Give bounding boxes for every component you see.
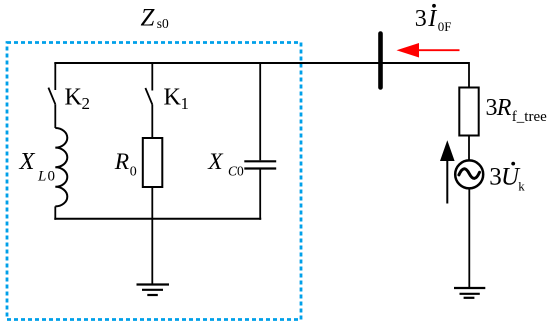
- capacitor XC0: [244, 161, 276, 168]
- svg-text:X: X: [207, 149, 224, 175]
- svg-text:3: 3: [415, 6, 427, 32]
- label K1: [164, 84, 190, 113]
- fault bus bar: [378, 34, 383, 88]
- svg-text:X: X: [19, 148, 36, 175]
- wire: resistor to source: [468, 136, 470, 162]
- wire: K1 to resistor R0: [151, 105, 153, 139]
- current arrow 3I0F (red): [397, 43, 460, 58]
- wire: top bus to capacitor: [259, 63, 261, 160]
- label K2: [65, 84, 91, 113]
- AC source 3Uk: [455, 160, 483, 188]
- wire: capacitor to bottom wire: [259, 170, 261, 220]
- switch K1: [145, 63, 152, 105]
- svg-text:I: I: [427, 6, 437, 32]
- svg-text:3: 3: [489, 163, 502, 190]
- svg-text:1: 1: [181, 94, 190, 113]
- svg-text:f_tree: f_tree: [512, 109, 547, 125]
- wire: bottom horizontal inside box: [54, 218, 261, 220]
- wire: top horizontal bus: [54, 62, 469, 64]
- wire: inductor to bottom wire: [54, 206, 56, 219]
- svg-text:0: 0: [237, 163, 244, 178]
- svg-text:0: 0: [130, 165, 137, 180]
- svg-text:0F: 0F: [438, 19, 452, 34]
- label R0: [114, 149, 137, 180]
- svg-text:K: K: [65, 84, 83, 110]
- voltage arrow (black, up): [440, 140, 455, 203]
- svg-text:L: L: [37, 168, 46, 184]
- dashed boundary box Zs0: [7, 43, 301, 320]
- label 3Rf_tree: [486, 95, 548, 125]
- label 3Uk: [489, 162, 525, 194]
- label 3I0F: [415, 4, 452, 34]
- ground (right): [454, 288, 485, 298]
- svg-text:2: 2: [82, 94, 91, 113]
- wire: R0 down through bottom wire to ground: [151, 187, 153, 285]
- inductor XL0: [55, 128, 67, 206]
- ground (middle): [137, 285, 170, 296]
- label XC0: [207, 149, 244, 178]
- wire: K2 to inductor: [54, 104, 56, 128]
- svg-text:3: 3: [486, 95, 498, 121]
- wire: source to ground: [468, 189, 470, 288]
- wire: top bus corner down to resistor: [468, 62, 470, 88]
- switch K2: [48, 63, 55, 104]
- resistor 3Rf_tree: [459, 88, 478, 136]
- svg-text:0: 0: [48, 168, 56, 184]
- label Zs0: [141, 4, 170, 31]
- svg-text:K: K: [164, 84, 182, 110]
- svg-text:Z: Z: [141, 4, 156, 31]
- svg-text:s0: s0: [157, 16, 169, 31]
- label XL0: [19, 148, 56, 184]
- svg-text:R: R: [114, 149, 129, 175]
- resistor R0: [143, 138, 163, 187]
- svg-text:R: R: [496, 95, 512, 121]
- svg-text:k: k: [518, 179, 525, 194]
